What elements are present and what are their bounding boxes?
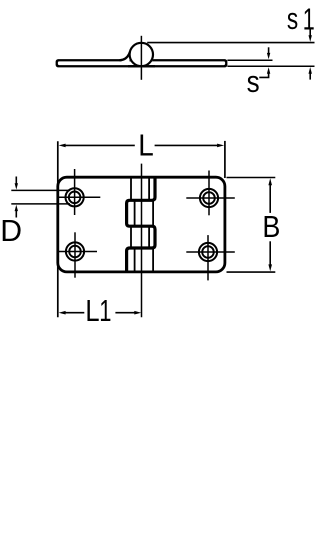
svg-text:1: 1: [99, 293, 111, 328]
extension line B bottom: [227, 271, 276, 273]
knuckle curl line S2 seam: [134, 201, 136, 225]
dimension B upper segment: [268, 178, 272, 213]
svg-text:B: B: [262, 209, 280, 244]
white notch for fillet: [122, 59, 130, 62]
hole BL crosshair: [58, 232, 98, 277]
dimension L1 left arrow: [59, 311, 85, 315]
hole TL outer: [66, 188, 84, 206]
knuckle curl line S4 seam: [134, 249, 136, 272]
dimension D lower arrow: [15, 205, 18, 218]
knuckle curl line S4 right: [152, 249, 154, 272]
knuckle curl line S1 seam: [148, 177, 150, 199]
hole BR crosshair: [186, 235, 235, 280]
dimension B lower segment: [268, 241, 272, 271]
knuckle meander edge (plan): [127, 177, 155, 271]
bar bottom stroke under knuckle: [128, 65, 155, 67]
hole TR outer: [200, 189, 218, 207]
hole TR inner: [203, 192, 215, 204]
extension line leaf bottom surface: [227, 65, 314, 67]
extension line right (L): [224, 141, 226, 178]
knuckle curl line S1 left: [130, 177, 132, 199]
svg-text:D: D: [0, 213, 22, 248]
centerline (side view pin axis): [140, 36, 142, 80]
dimension L1 right arrow: [115, 311, 141, 315]
svg-text:1: 1: [303, 1, 315, 36]
hole BL outer: [66, 242, 84, 260]
svg-text:s: s: [247, 64, 260, 99]
svg-text:L: L: [85, 293, 99, 328]
knuckle circle U1: [130, 43, 153, 66]
extension line leaf top surface: [227, 59, 272, 61]
dimension D extension top: [11, 189, 70, 191]
hole TL crosshair: [58, 169, 101, 215]
hole BR inner: [202, 246, 214, 258]
dimension s1 lower arrow: [309, 67, 312, 80]
plan centerline: [141, 164, 143, 318]
leaf bar inner slot: [58, 61, 225, 65]
extension line top of knuckle: [147, 42, 314, 44]
dimension D extension bottom: [11, 203, 70, 205]
dimension s lower arrow + leader: [259, 67, 270, 77]
hole TR crosshair: [186, 171, 235, 216]
extension line B top: [227, 177, 276, 179]
knuckle curl line S3 left: [130, 227, 132, 247]
hole BL inner: [69, 246, 81, 258]
knuckle disc erase: [129, 42, 155, 68]
leaf bar silhouette (left+right leaf, side view): [56, 59, 228, 67]
knuckle curl line S3 seam: [148, 227, 150, 247]
svg-text:L: L: [138, 128, 154, 163]
knuckle curl line S2 right: [152, 201, 154, 225]
svg-text:s: s: [287, 1, 298, 36]
dimension s1 upper arrow: [309, 29, 312, 42]
dimension s upper arrow: [267, 47, 270, 59]
dimension L line left segment: [59, 144, 135, 148]
dimension L line right segment: [155, 144, 225, 148]
extension line left (L/L1): [57, 141, 59, 317]
hole BR outer: [199, 243, 217, 261]
fillet wire (leaf top into knuckle): [120, 52, 130, 60]
hole TL inner: [69, 192, 81, 204]
dimension D upper arrow: [15, 177, 18, 190]
hinge body outline: [58, 177, 225, 272]
